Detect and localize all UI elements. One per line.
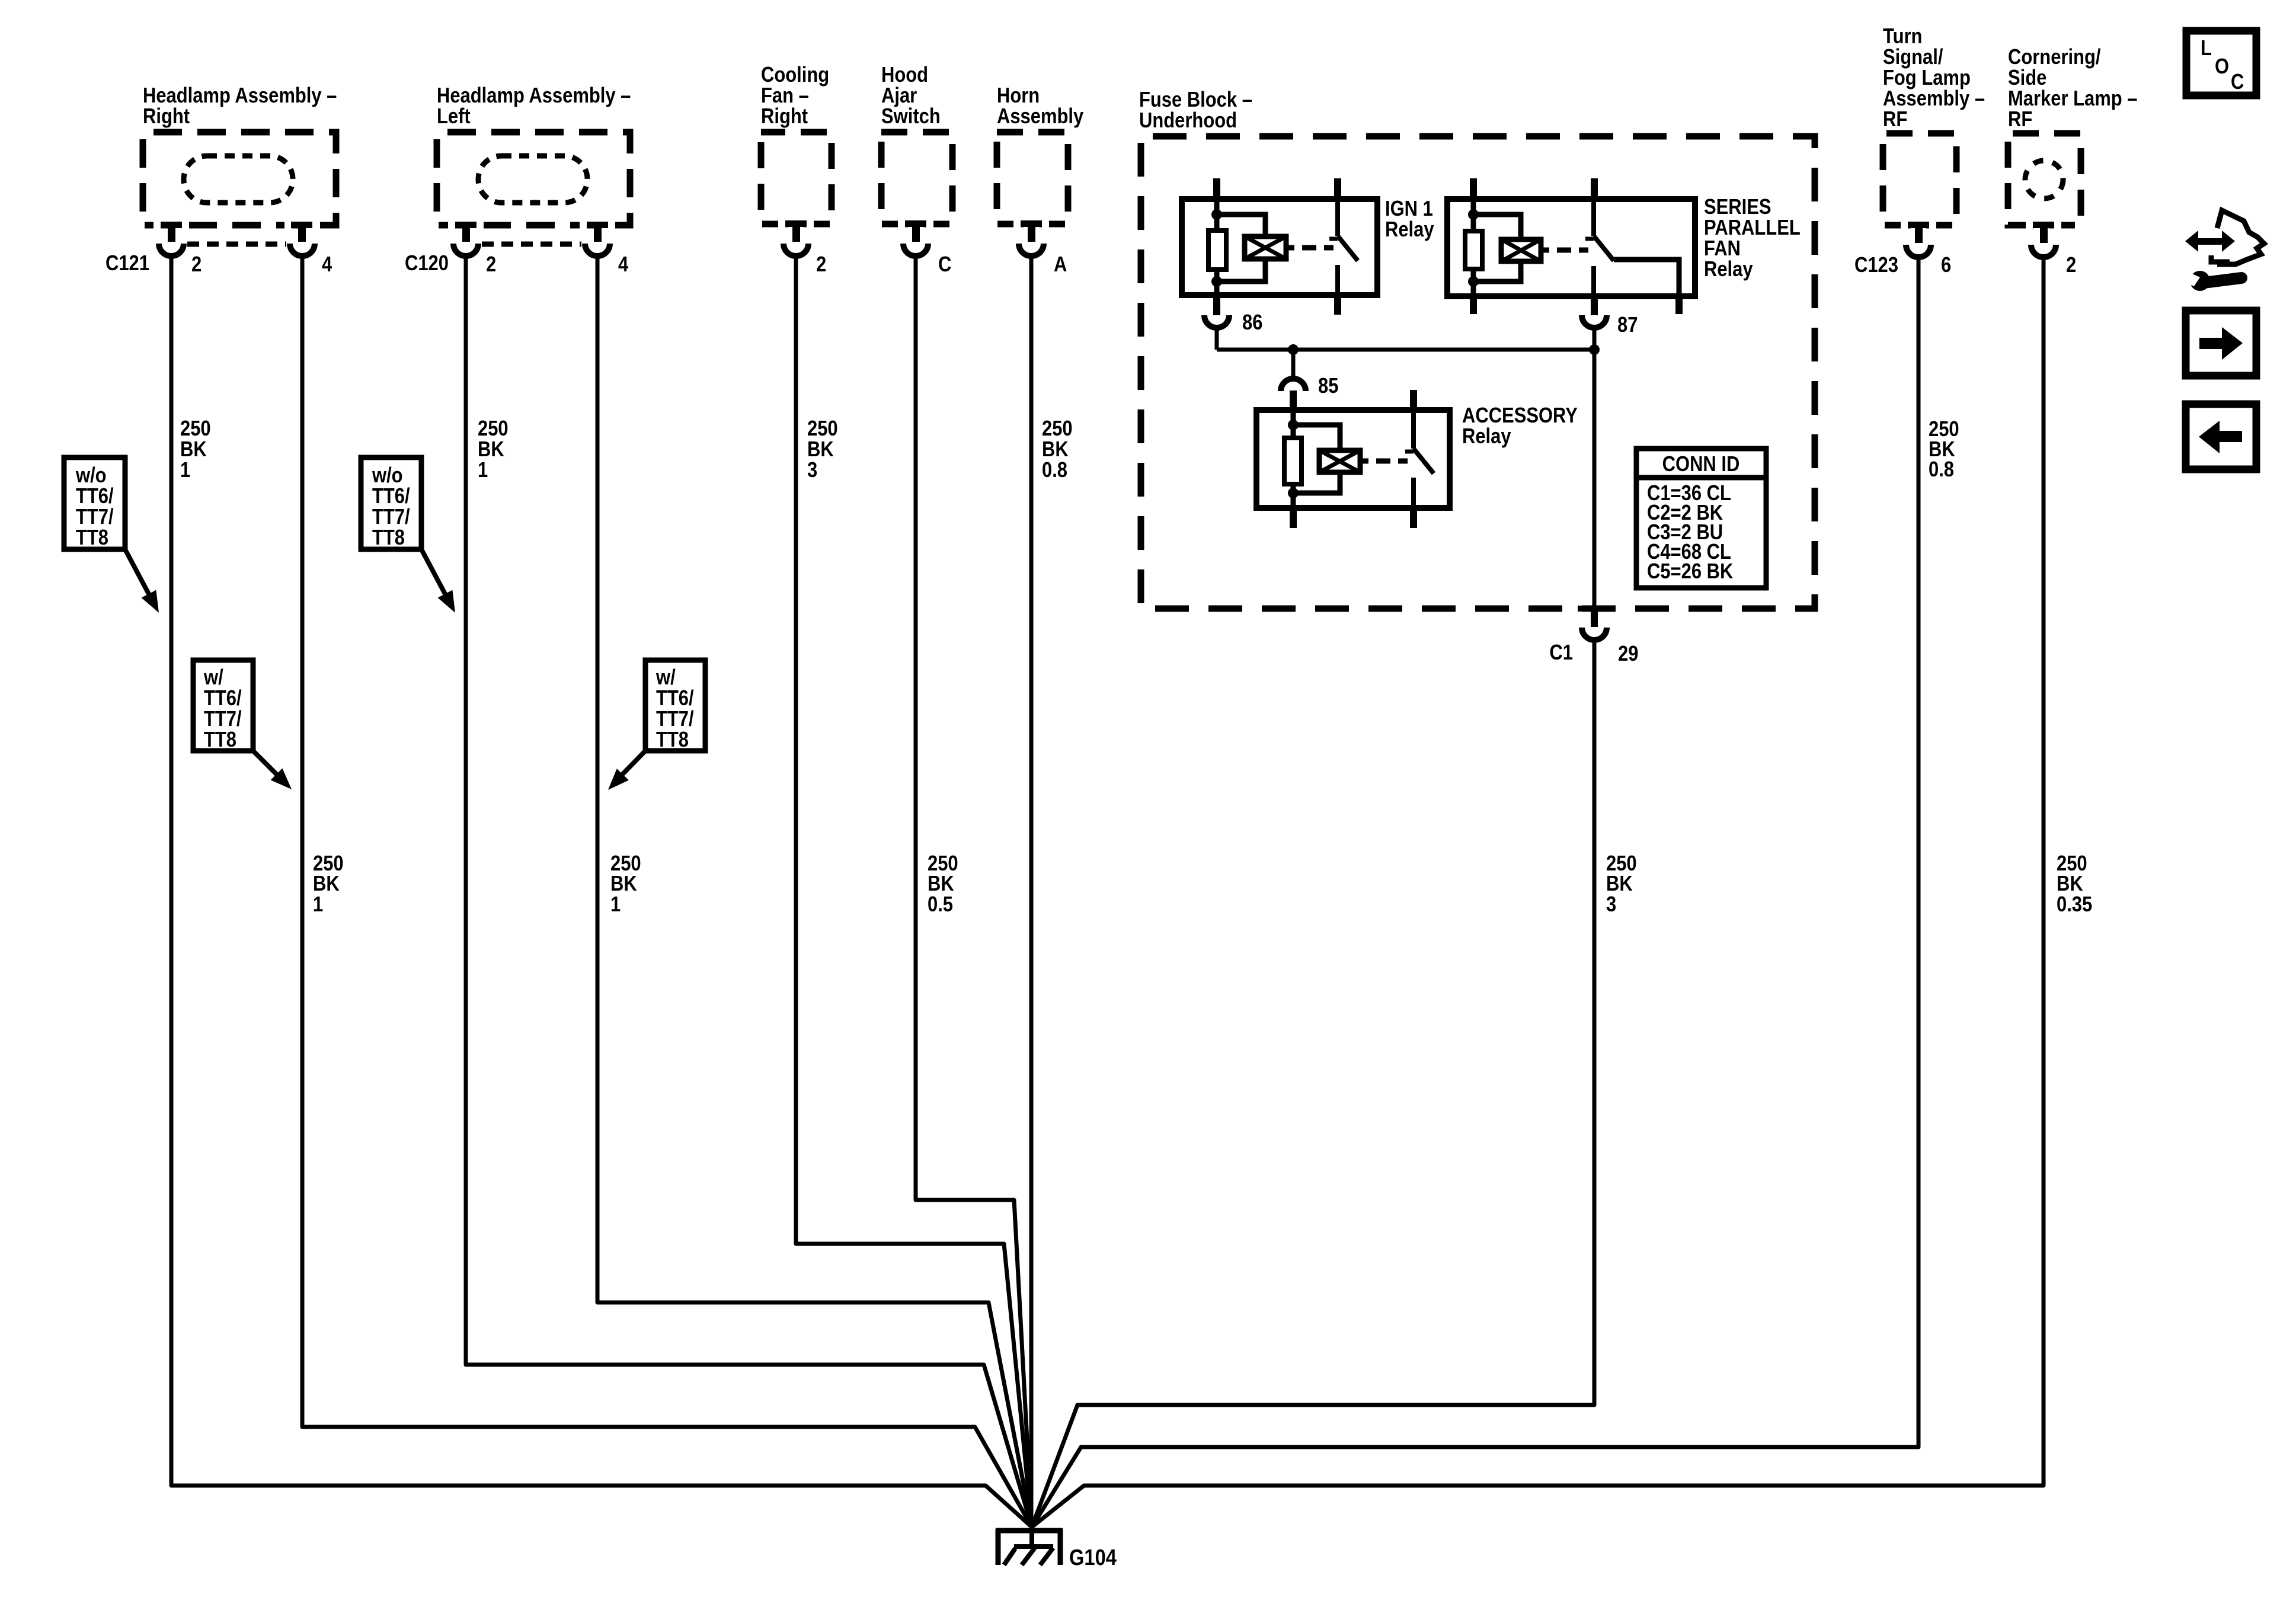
connector C120 body dashed bridge xyxy=(482,242,581,247)
svg-text:Cooling: Cooling xyxy=(761,63,829,87)
svg-text:A: A xyxy=(1054,253,1067,277)
svg-text:Assembly –: Assembly – xyxy=(1883,87,1985,111)
svg-text:C1: C1 xyxy=(1549,641,1573,665)
hood ajar switch box xyxy=(881,132,952,224)
cornering side marker lamp box xyxy=(2008,133,2081,225)
svg-text:Relay: Relay xyxy=(1385,218,1434,242)
svg-text:Right: Right xyxy=(761,105,808,129)
svg-text:ACCESSORY: ACCESSORY xyxy=(1462,404,1578,428)
svg-text:250: 250 xyxy=(807,417,838,441)
connector C1 pin 29 stub xyxy=(1591,611,1598,627)
svg-text:C: C xyxy=(938,253,951,277)
callout arrow to wire C121-2 xyxy=(125,549,159,613)
svg-text:1: 1 xyxy=(478,459,488,482)
svg-text:85: 85 xyxy=(1318,375,1338,398)
svg-text:TT8: TT8 xyxy=(76,526,108,550)
svg-text:SERIES: SERIES xyxy=(1704,196,1771,219)
wire hood ajar switch to G104 xyxy=(916,255,1032,1527)
connector C121 pin 2 cup xyxy=(159,244,184,256)
ground G104 symbol xyxy=(996,1523,1063,1565)
pin base dashes at box bottoms xyxy=(161,222,182,228)
svg-text:1: 1 xyxy=(313,893,323,917)
svg-text:2: 2 xyxy=(486,253,496,277)
LOC legend box xyxy=(2186,31,2256,95)
svg-text:C5=26 BK: C5=26 BK xyxy=(1647,560,1733,584)
hood ajar pin C cup xyxy=(903,244,928,256)
svg-text:C: C xyxy=(2231,71,2244,94)
callout arrow to wire C120-2 xyxy=(421,549,455,613)
svg-text:RF: RF xyxy=(1883,108,1907,132)
svg-text:w/o: w/o xyxy=(75,464,107,488)
wire C120-2 to G104 xyxy=(466,255,1032,1527)
svg-text:BK: BK xyxy=(478,438,504,462)
svg-text:Left: Left xyxy=(437,105,471,129)
relay U2 SERIES PARALLEL FAN Relay xyxy=(1447,178,1695,315)
svg-text:TT6/: TT6/ xyxy=(372,485,410,508)
svg-text:TT8: TT8 xyxy=(204,728,236,752)
headlamp assembly right box xyxy=(143,132,336,225)
connector pin 85 cap xyxy=(1281,379,1306,391)
svg-text:Side: Side xyxy=(2008,66,2046,90)
wire 87 down through bus to fuse box bottom xyxy=(1593,329,1597,611)
option callout box w/o TT6/TT7/TT8 (C120-2) xyxy=(361,457,421,550)
wire bus to 85 xyxy=(1291,350,1296,377)
svg-text:1: 1 xyxy=(610,893,621,917)
connector C120 pin 4 stub xyxy=(594,224,602,242)
connector pin 85 stub xyxy=(1290,391,1297,410)
svg-text:Fog Lamp: Fog Lamp xyxy=(1883,66,1971,90)
svg-text:BK: BK xyxy=(2057,872,2083,896)
svg-text:2: 2 xyxy=(2066,254,2076,277)
svg-text:O: O xyxy=(2215,55,2229,79)
wire fuse block C1-29 to G104 xyxy=(1032,643,1594,1527)
svg-text:BK: BK xyxy=(807,438,834,462)
svg-text:3: 3 xyxy=(807,459,817,482)
svg-text:Marker Lamp –: Marker Lamp – xyxy=(2008,87,2137,111)
svg-text:87: 87 xyxy=(1617,313,1638,337)
svg-text:Headlamp Assembly –: Headlamp Assembly – xyxy=(437,84,631,108)
svg-text:BK: BK xyxy=(928,872,954,896)
svg-text:Horn: Horn xyxy=(997,84,1040,108)
wire turn signal C123-6 to G104 xyxy=(1032,257,1918,1527)
connector pin 86 stub xyxy=(1213,295,1220,314)
svg-text:G104: G104 xyxy=(1069,1545,1117,1570)
svg-text:250: 250 xyxy=(478,417,509,441)
svg-text:FAN: FAN xyxy=(1704,237,1741,261)
wire C120-4 to G104 xyxy=(597,255,1032,1527)
cooling fan pin 2 stub xyxy=(792,224,800,242)
connector C120 pin 2 stub xyxy=(462,224,470,242)
svg-text:BK: BK xyxy=(313,872,340,896)
ground bus wire inside fuse block xyxy=(1217,348,1594,352)
gaps beside pin base dashes xyxy=(154,221,161,229)
wire C121-2 to G104 xyxy=(171,255,1032,1527)
svg-text:Assembly: Assembly xyxy=(997,105,1084,129)
option callout box w/ TT6/TT7/TT8 (C121-4) xyxy=(193,660,253,752)
svg-text:Hood: Hood xyxy=(881,63,928,87)
SECTION1END xyxy=(171,255,2044,1527)
wire horn to G104 xyxy=(1029,255,1034,1518)
junction dot at 87 drop xyxy=(1589,344,1600,355)
turn signal pin 6 cup xyxy=(1906,245,1931,257)
wire C121-4 to G104 xyxy=(302,255,1032,1527)
horn pin A cup xyxy=(1019,244,1044,256)
svg-text:IGN 1: IGN 1 xyxy=(1385,197,1433,221)
svg-text:4: 4 xyxy=(618,253,629,277)
callout arrow to wire C121-4 xyxy=(253,751,292,789)
svg-text:Relay: Relay xyxy=(1704,258,1753,281)
option callout box w/ TT6/TT7/TT8 (C120-4) xyxy=(645,660,705,752)
svg-text:1: 1 xyxy=(180,459,190,482)
svg-text:TT8: TT8 xyxy=(656,728,689,752)
svg-text:C123: C123 xyxy=(1854,254,1898,277)
svg-text:TT8: TT8 xyxy=(372,526,405,550)
svg-text:Turn: Turn xyxy=(1883,25,1922,49)
svg-text:Fuse Block –: Fuse Block – xyxy=(1139,88,1252,112)
svg-text:L: L xyxy=(2201,37,2212,60)
svg-text:Underhood: Underhood xyxy=(1139,109,1237,133)
connector C120 pin 2 cup xyxy=(453,244,478,256)
option callout box w/o TT6/TT7/TT8 (C121-2) xyxy=(64,457,125,550)
junction dot at 85 drop xyxy=(1288,344,1299,355)
left arrow legend box xyxy=(2186,404,2256,469)
svg-text:RF: RF xyxy=(2008,108,2032,132)
svg-text:w/: w/ xyxy=(203,666,223,690)
repair icon step xyxy=(2211,255,2230,262)
turn signal fog lamp box xyxy=(1883,133,1956,225)
connector pin 87 cup xyxy=(1582,315,1607,328)
relay U1 IGN 1 Relay xyxy=(1182,178,1377,315)
svg-text:86: 86 xyxy=(1242,311,1262,335)
cooling fan pin 2 cup xyxy=(784,244,808,256)
headlamp right bulb stadium xyxy=(184,156,293,203)
svg-text:TT6/: TT6/ xyxy=(76,485,114,508)
svg-text:6: 6 xyxy=(1941,254,1951,277)
svg-text:w/o: w/o xyxy=(372,464,403,488)
svg-text:C120: C120 xyxy=(405,252,449,276)
svg-text:BK: BK xyxy=(1606,872,1633,896)
svg-text:CONN ID: CONN ID xyxy=(1662,453,1740,476)
svg-text:250: 250 xyxy=(180,417,211,441)
svg-text:TT7/: TT7/ xyxy=(76,505,114,529)
svg-text:0.5: 0.5 xyxy=(928,893,953,917)
cooling fan right box xyxy=(761,132,832,224)
svg-text:4: 4 xyxy=(322,253,332,277)
svg-text:TT6/: TT6/ xyxy=(656,687,694,710)
svg-text:Switch: Switch xyxy=(881,105,941,129)
CONN ID table xyxy=(1636,449,1766,588)
svg-text:TT6/: TT6/ xyxy=(204,687,242,710)
wire 86 to bus xyxy=(1215,329,1219,350)
hood ajar pin C stub xyxy=(912,224,920,242)
svg-text:250: 250 xyxy=(1042,417,1073,441)
connector C121 pin 4 cup xyxy=(290,244,315,256)
repair icon wrench xyxy=(2186,271,2241,291)
repair icon connector outline xyxy=(2217,210,2264,264)
headlamp assembly left box xyxy=(437,132,630,225)
svg-text:3: 3 xyxy=(1606,893,1616,917)
connector C1 pin 29 cup xyxy=(1582,628,1607,640)
svg-text:2: 2 xyxy=(816,253,826,277)
svg-text:Ajar: Ajar xyxy=(881,84,917,108)
svg-text:TT7/: TT7/ xyxy=(656,708,694,731)
cornering lamp bulb circle xyxy=(2025,161,2063,199)
connector pin 86 cup xyxy=(1204,315,1229,328)
svg-text:BK: BK xyxy=(610,872,637,896)
connector C120 pin 4 cup xyxy=(585,244,610,256)
svg-text:TT7/: TT7/ xyxy=(204,708,242,731)
svg-text:Headlamp Assembly –: Headlamp Assembly – xyxy=(143,84,337,108)
svg-text:BK: BK xyxy=(180,438,207,462)
svg-text:Right: Right xyxy=(143,105,190,129)
svg-text:BK: BK xyxy=(1042,438,1069,462)
horn pin A stub xyxy=(1028,224,1035,242)
svg-text:PARALLEL: PARALLEL xyxy=(1704,216,1801,240)
svg-text:Fan –: Fan – xyxy=(761,84,809,108)
svg-text:2: 2 xyxy=(191,253,202,277)
turn signal pin 6 stub xyxy=(1915,225,1923,243)
fuse block underhood dashed box xyxy=(1141,136,1815,609)
connector C121 pin 4 stub xyxy=(298,224,306,242)
right arrow legend box xyxy=(2186,311,2256,376)
svg-text:29: 29 xyxy=(1618,642,1638,666)
cornering pin 2 stub xyxy=(2040,225,2048,243)
connector C121 body dashed bridge xyxy=(187,242,286,247)
svg-text:Relay: Relay xyxy=(1462,425,1511,449)
svg-text:0.8: 0.8 xyxy=(1929,458,1954,482)
wire cornering lamp to G104 xyxy=(1032,257,2044,1527)
cornering pin 2 cup xyxy=(2031,245,2056,257)
svg-text:TT7/: TT7/ xyxy=(372,505,410,529)
relay U3 ACCESSORY Relay xyxy=(1256,390,1450,528)
svg-text:Cornering/: Cornering/ xyxy=(2008,46,2100,69)
connector C121 pin 2 stub xyxy=(168,224,175,242)
horn assembly box xyxy=(997,132,1068,224)
wire cooling fan to G104 xyxy=(796,255,1032,1527)
headlamp left bulb stadium xyxy=(478,156,587,203)
callout arrow to wire C120-4 xyxy=(608,751,645,790)
svg-text:Signal/: Signal/ xyxy=(1883,46,1943,69)
svg-text:0.35: 0.35 xyxy=(2057,893,2092,917)
repair icon double arrow xyxy=(2185,231,2235,252)
svg-text:w/: w/ xyxy=(655,666,676,690)
svg-text:0.8: 0.8 xyxy=(1042,459,1067,482)
svg-text:C121: C121 xyxy=(105,252,149,276)
